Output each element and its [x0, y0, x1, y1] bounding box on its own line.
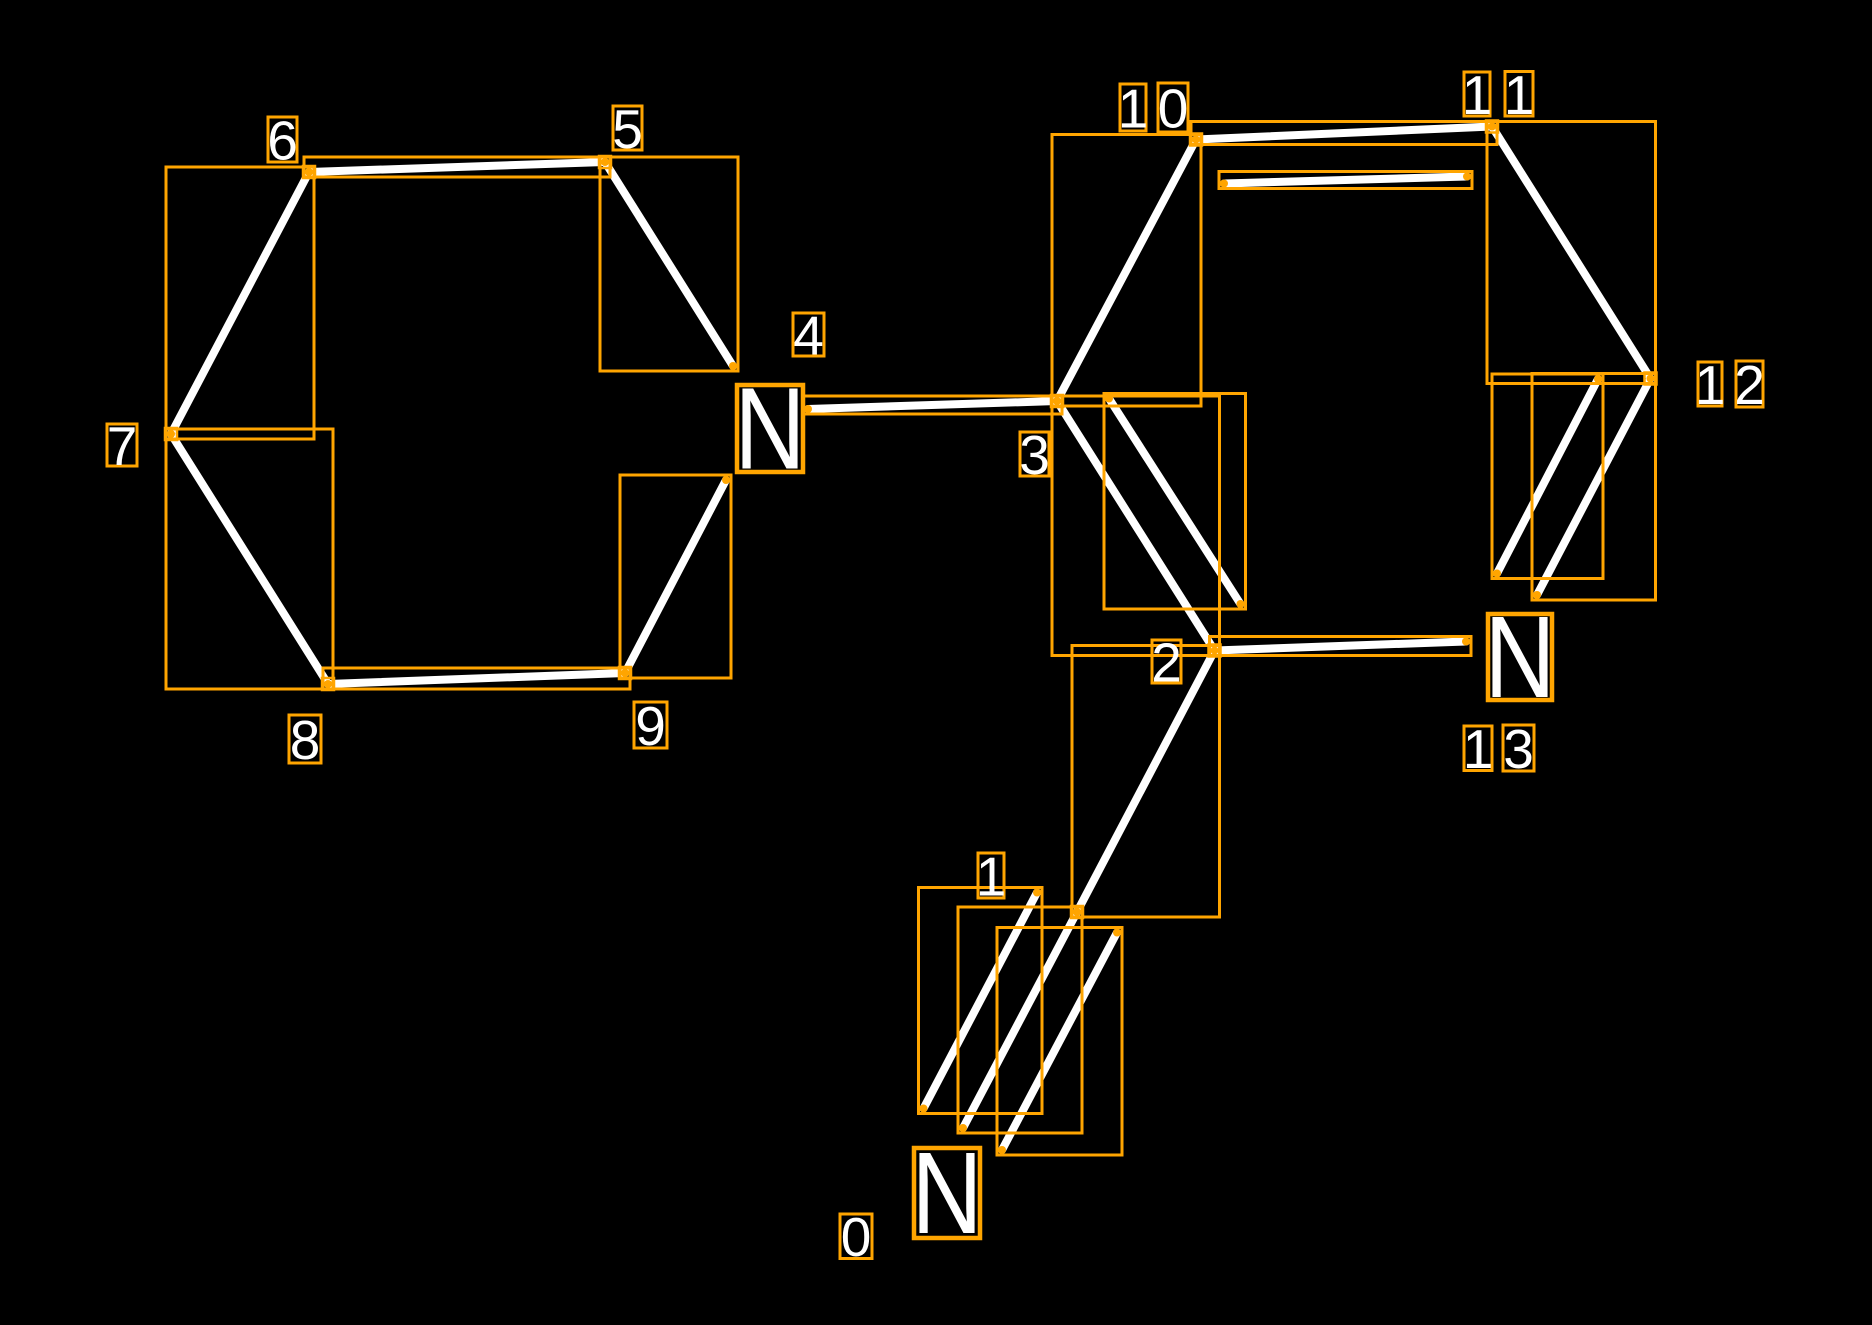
bond 3-10: [1057, 140, 1196, 402]
bond 8-9: [328, 673, 625, 684]
atom 2 marker box: [1209, 645, 1221, 657]
bounding box of bond 6-5: [304, 157, 610, 177]
svg-text:7: 7: [107, 415, 138, 477]
label 8 (atom 8) box: [289, 715, 321, 763]
svg-text:9: 9: [635, 695, 666, 757]
svg-text:3: 3: [1019, 424, 1050, 486]
endpoint dot at bond 2-3 inner line end (1240.5,604): [1237, 600, 1245, 608]
svg-text:4: 4: [793, 305, 824, 367]
bounding box of bond 12-13 main line: [1532, 374, 1656, 601]
label 3 (atom 3) box: [1020, 432, 1049, 476]
bounding box of bond 9-N4: [620, 475, 731, 678]
label 7 (atom 7) box: [107, 424, 137, 466]
label 13 digit 3 box: [1503, 725, 1534, 771]
endpoint dot at bond 10-11 inner line end (1467,176.5): [1463, 173, 1471, 181]
bounding box of bond 12-13 inner line: [1492, 374, 1603, 579]
svg-text:2: 2: [1151, 632, 1182, 694]
label 9 (atom 9) box: [634, 702, 667, 748]
endpoint dot at bond 2-1 end (1077,912): [1073, 908, 1081, 916]
bounding box of bond N4-5: [600, 157, 738, 371]
label 10 digit 0 box: [1158, 83, 1188, 132]
bounding box of bond 8-9: [323, 668, 630, 689]
bounding box of bond 2-3 main line: [1052, 396, 1220, 656]
bond 9-N4: [625, 480, 726, 673]
endpoint dot at bond 13-2 end (1214.5,650.5): [1211, 647, 1219, 655]
bond 12-13 inner line: [1497, 379, 1598, 574]
bounding box of triple bond 1-0 left line: [919, 888, 1043, 1114]
svg-text:6: 6: [267, 110, 298, 172]
atom 3 marker box: [1051, 395, 1063, 407]
atom 6 marker box: [303, 166, 315, 178]
endpoint dot at bond 9-N4 end (726,480): [722, 476, 730, 484]
svg-text:1: 1: [976, 846, 1007, 908]
nitrogen atom N13 box: [1488, 614, 1552, 700]
bond N4-5: [605, 162, 733, 366]
nitrogen atom N0 box: [914, 1148, 980, 1238]
svg-text:1: 1: [1504, 64, 1535, 126]
label 13 digit 1 box: [1464, 726, 1492, 771]
endpoint dot at bond 10-11 main line end (1492,126.5): [1488, 123, 1496, 131]
bounding box of bond 10-11 main line: [1191, 122, 1497, 145]
bond 6-7: [171, 172, 309, 434]
bounding box of bond 3-10: [1052, 135, 1201, 407]
label 5 (atom 5) box: [613, 106, 642, 150]
triple bond 1-0 middle line: [963, 912, 1077, 1128]
bounding box of bond N4-3: [803, 396, 1062, 414]
label 11 digit 1 box: [1464, 72, 1490, 116]
endpoint dot at bond 8-9 end (625,673): [621, 669, 629, 677]
svg-text:1: 1: [1462, 64, 1493, 126]
svg-text:8: 8: [290, 709, 321, 771]
endpoint dot at bond 7-8 end (328,684): [324, 680, 332, 688]
bond 10-11 inner line: [1224, 177, 1467, 184]
svg-text:0: 0: [841, 1206, 872, 1268]
svg-text:5: 5: [612, 98, 643, 160]
label 2 (atom 2) box: [1152, 640, 1181, 683]
bond N4-3: [808, 401, 1057, 409]
bounding box of bond 6-7: [166, 167, 314, 439]
triple bond 1-0 left line: [924, 893, 1038, 1109]
atom 11 marker box: [1486, 121, 1498, 133]
label 4 (atom 4) box: [793, 313, 824, 356]
svg-text:0: 0: [1158, 78, 1189, 140]
svg-text:N: N: [1484, 592, 1555, 721]
atom 10 marker box: [1190, 134, 1202, 146]
endpoint dot at bond 6-5 end (309,172): [305, 168, 313, 176]
endpoint dot at bond 6-7 end (171,434): [167, 430, 175, 438]
endpoint dot at bond 2-3 inner line end (1109,398.5): [1105, 395, 1113, 403]
bond 2-3 inner line: [1109, 399, 1241, 605]
bond 13-2: [1215, 642, 1467, 651]
svg-text:2: 2: [1734, 354, 1765, 416]
label 1 (atom 1) box: [978, 853, 1004, 898]
label 6 (atom 6) box: [268, 117, 297, 162]
endpoint dot at bond 12-13 inner line end (1598,379): [1594, 375, 1602, 383]
endpoint dot at triple bond 1-0 left line end (923.5,1108.5): [920, 1105, 928, 1113]
endpoint dot at bond 12-13 inner line end (1497,573.5): [1493, 570, 1501, 578]
bounding box of bond 11-12: [1487, 122, 1656, 384]
bond 7-8: [171, 434, 328, 684]
bounding box of bond 2-1: [1072, 646, 1220, 918]
bounding box of triple bond 1-0 middle line: [958, 907, 1082, 1133]
svg-text:3: 3: [1503, 718, 1534, 780]
svg-text:1: 1: [1118, 78, 1149, 140]
bond 2-1: [1077, 651, 1215, 913]
endpoint dot at triple bond 1-0 right line end (1117,932.5): [1113, 929, 1121, 937]
atom 1 marker box: [1071, 906, 1083, 918]
bond 10-11 main line: [1196, 127, 1492, 140]
svg-text:1: 1: [1463, 718, 1494, 780]
bounding box of bond 7-8: [166, 429, 333, 689]
bond 11-12: [1492, 127, 1651, 379]
endpoint dot at bond 3-10 end (1196,139.5): [1192, 136, 1200, 144]
endpoint dot at triple bond 1-0 right line end (1002,1150): [998, 1146, 1006, 1154]
label 12 digit 1 box: [1698, 362, 1722, 406]
bond 12-13 main line: [1537, 379, 1651, 596]
endpoint dot at bond N4-3 end (808,409): [804, 405, 812, 413]
bounding box of triple bond 1-0 right line: [997, 928, 1122, 1156]
label 10 digit 1 box: [1120, 84, 1146, 131]
label 12 digit 2 box: [1736, 361, 1763, 407]
endpoint dot at bond 12-13 main line end (1537,595): [1533, 591, 1541, 599]
atom 5 marker box: [599, 156, 611, 168]
atom 8 marker box: [322, 678, 334, 690]
endpoint dot at bond N4-5 end (733,366): [729, 362, 737, 370]
endpoint dot at bond N4-3 end (1057,401): [1053, 397, 1061, 405]
svg-text:N: N: [734, 364, 805, 493]
atom 9 marker box: [619, 667, 631, 679]
triple bond 1-0 right line: [1002, 933, 1117, 1151]
endpoint dot at triple bond 1-0 left line end (1037,892.5): [1033, 889, 1041, 897]
atom 12 marker box: [1645, 373, 1657, 385]
endpoint dot at bond 10-11 inner line end (1224,183.5): [1220, 180, 1228, 188]
bond 6-5: [309, 162, 605, 172]
nitrogen atom N4 box: [737, 385, 803, 472]
bounding box of bond 13-2: [1210, 637, 1472, 656]
label 11 digit 1b box: [1505, 72, 1533, 117]
bounding box of bond 2-3 inner line: [1104, 394, 1246, 610]
endpoint dot at bond 6-5 end (605,162): [601, 158, 609, 166]
endpoint dot at triple bond 1-0 middle line end (963,1128): [959, 1124, 967, 1132]
bounding box of bond 10-11 inner line: [1219, 172, 1472, 189]
endpoint dot at bond 13-2 end (1466,641.5): [1462, 638, 1470, 646]
atom 7 marker box: [165, 428, 177, 440]
endpoint dot at bond 11-12 end (1650.5,378.5): [1647, 375, 1655, 383]
label 0 (atom 0) box: [840, 1214, 872, 1259]
svg-text:N: N: [911, 1128, 982, 1257]
svg-text:1: 1: [1695, 354, 1726, 416]
bond 2-3 main line: [1057, 401, 1215, 651]
